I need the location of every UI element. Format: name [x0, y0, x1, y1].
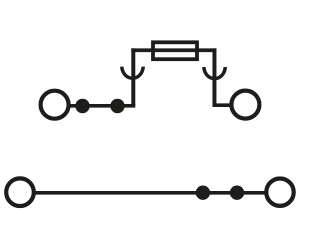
fuse clamp contact (left disconnect arc) — [122, 67, 144, 79]
junction dot A2 — [110, 99, 124, 113]
junction dot A1 — [75, 99, 89, 113]
terminal circle T2 (top-right plug contact) — [231, 91, 259, 119]
wire: short segment to top-right terminal — [213, 103, 234, 107]
wire: left riser up to fuse level — [131, 48, 135, 105]
wire: right riser down from fuse level — [212, 48, 216, 106]
junction dot B1 — [196, 186, 210, 200]
terminal circle T1 (top-left plug contact) — [41, 91, 69, 119]
junction dot B2 — [230, 186, 244, 200]
wire: bottom feed-through conductor — [32, 191, 267, 195]
wire: top-left horizontal segment — [68, 104, 136, 108]
terminal circle T3 (bottom-left plug contact) — [6, 178, 34, 206]
fuse clamp contact (right disconnect arc) — [204, 67, 226, 79]
terminal circle T4 (bottom-right plug contact) — [266, 179, 293, 206]
fuse F1 (rectangle body) — [153, 42, 197, 59]
wire: top horizontal through fuse — [131, 48, 216, 52]
